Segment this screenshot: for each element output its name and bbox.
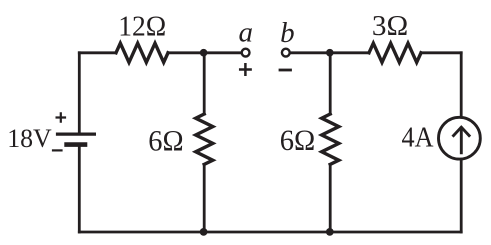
svg-text:12Ω: 12Ω — [118, 10, 166, 42]
svg-text:3Ω: 3Ω — [372, 11, 408, 42]
svg-text:6Ω: 6Ω — [280, 124, 316, 157]
svg-text:a: a — [238, 17, 253, 49]
svg-text:4A: 4A — [402, 122, 435, 153]
svg-text:b: b — [280, 17, 295, 49]
svg-text:6Ω: 6Ω — [148, 125, 183, 158]
svg-text:18V: 18V — [7, 123, 52, 153]
